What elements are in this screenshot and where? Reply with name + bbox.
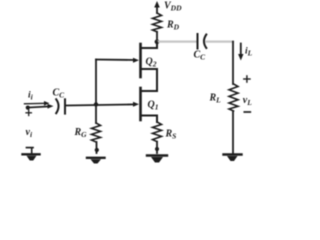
svg-text:Q1: Q1 (148, 100, 159, 112)
wire input to capacitor (27, 104, 54, 109)
svg-text:Q2: Q2 (146, 57, 157, 69)
node input terminal dot (26, 106, 30, 110)
svg-text:RD: RD (166, 20, 180, 32)
svg-text:iL: iL (245, 47, 253, 58)
wire gray output top (158, 40, 196, 42)
wire stem to input ground (31, 149, 33, 154)
svg-text:vL: vL (243, 95, 252, 107)
svg-text:RL: RL (209, 93, 222, 105)
svg-text:CC: CC (53, 88, 66, 100)
label vL minus (244, 111, 250, 113)
wire RL to ground (232, 111, 234, 153)
wire Q2 source to Q1 drain (156, 69, 158, 91)
svg-text:vi: vi (26, 127, 33, 139)
wire output vertical (232, 42, 234, 84)
ground under RL (224, 155, 242, 162)
resistor RD (153, 13, 162, 32)
wire bias to RG (95, 105, 97, 124)
label vL plus (244, 76, 250, 82)
wire bias vertical (95, 60, 97, 105)
transistor Q1 (141, 88, 158, 120)
wire RG to ground (96, 142, 98, 153)
svg-text:CC: CC (194, 50, 207, 62)
node RG ground dot (95, 148, 99, 152)
resistor RG (92, 123, 101, 142)
svg-text:RG: RG (74, 127, 88, 139)
wire gray after capacitor (207, 40, 234, 42)
node RS ground dot (155, 147, 159, 151)
label vi plus (26, 110, 31, 115)
current arrow iL (238, 44, 243, 61)
resistor RL (229, 84, 238, 111)
resistor RS (153, 122, 162, 142)
svg-text:VDD: VDD (164, 1, 182, 13)
wire Q1 gate from capacitor (66, 102, 139, 107)
current arrow ii (25, 101, 50, 106)
wire RS to ground (156, 142, 158, 153)
wire RD to drain node (156, 32, 158, 42)
capacitor CC output (198, 34, 207, 49)
wire Q1 source to RS (156, 116, 158, 123)
wire Q2 gate (96, 58, 139, 63)
ground under RS (147, 156, 167, 163)
node drain junction dot (155, 39, 160, 44)
svg-text:ii: ii (28, 91, 34, 102)
svg-text:RS: RS (165, 129, 177, 141)
capacitor CC input (56, 99, 65, 113)
transistor Q2 (141, 42, 158, 77)
label vi minus (27, 147, 34, 149)
ground input port (23, 154, 40, 160)
ground under RG (87, 158, 105, 164)
VDD supply arrow (154, 1, 160, 13)
node gate junction dot (94, 102, 98, 106)
